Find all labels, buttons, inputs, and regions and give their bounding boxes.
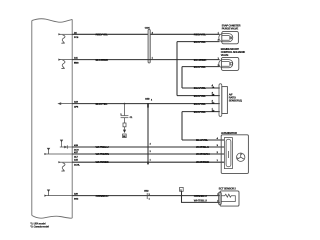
svg-text:EMS: EMS <box>74 62 79 64</box>
A/F ratio sensor label <box>229 93 242 103</box>
svg-text:BLK/YEL: BLK/YEL <box>96 102 108 106</box>
svg-text:WHT/BLU: WHT/BLU <box>196 145 209 149</box>
wire R3 BLU/RED: ECM to engine mount control solenoid valve pin 1 <box>72 59 219 61</box>
ECT sensor 2 body <box>219 191 240 206</box>
wire R4 BLK/YEL: trunk to engine mount control solenoid valve pin 2 <box>182 66 220 68</box>
svg-text:C1: C1 <box>130 117 133 119</box>
ECM pin label A19/ACG <box>74 144 79 152</box>
ECM internal ground flag (ECT sensor ground) <box>44 190 72 197</box>
wire R5 BLK/YEL: T2 trunk to A/F sensor pin 1 <box>182 87 220 89</box>
svg-text:AFS: AFS <box>74 105 79 108</box>
A/F sensor pin labels <box>212 84 215 113</box>
alternator pin labels <box>217 137 219 162</box>
wire R1 RED/YEL: ECM to EVAP canister purge valve pin 1 <box>72 33 219 35</box>
capacitor C1 branch to ground <box>120 104 133 139</box>
svg-text:WHT/GRN: WHT/GRN <box>96 152 110 156</box>
ECM pin label A20/SG2 <box>74 193 79 201</box>
node T1: trunk from purge valve pin 2 down to A/F pin 2 <box>176 42 178 96</box>
inline connector C512 tick on ECT wire <box>144 190 150 200</box>
node T2: trunk from engine mount pin 2 down to A/F pin 1 <box>181 67 183 88</box>
connector reference square above ECT wire tee <box>180 187 184 195</box>
svg-text:ORN/BLU: ORN/BLU <box>96 194 109 198</box>
node T3: trunk from A/F pin 4 down to alternator wire <box>181 112 183 140</box>
ECT sensor 2 pin labels <box>217 194 219 203</box>
engine mount control solenoid valve label <box>221 47 245 57</box>
svg-text:*2: Canada model: *2: Canada model <box>30 226 49 229</box>
svg-text:C152: C152 <box>145 98 150 100</box>
svg-text:BLU/RED: BLU/RED <box>194 58 207 62</box>
svg-text:ECT SENSOR 2: ECT SENSOR 2 <box>219 187 237 191</box>
wire R10 WHT/BLU: ECM to alternator <box>72 146 224 148</box>
svg-text:ALT: ALT <box>74 156 79 159</box>
svg-text:BLU/RED: BLU/RED <box>96 58 109 62</box>
alternator body <box>221 135 248 174</box>
svg-text:ACGL: ACGL <box>74 163 81 166</box>
A/F sensor connector capsule <box>219 84 222 117</box>
svg-text:C512: C512 <box>144 190 149 192</box>
svg-text:WHT/BLU: WHT/BLU <box>96 145 109 149</box>
svg-text:WHT/GRN: WHT/GRN <box>196 152 210 156</box>
svg-text:2: 2 <box>150 151 151 153</box>
svg-text:4: 4 <box>151 99 153 102</box>
svg-text:SENSOR (1): SENSOR (1) <box>229 98 242 102</box>
wire R11 WHT/GRN: ECM to alternator <box>72 153 224 155</box>
EVAP canister purge valve body <box>219 31 239 43</box>
wire R13 ORN/BLU: ECM to ECT sensor 2 pin 1 <box>72 195 219 197</box>
ECM pin label A23/AFS <box>74 101 79 109</box>
wire R7 BLK/YEL: ECM to A/F sensor pin 3 <box>72 103 220 105</box>
svg-text:BLU/YEL: BLU/YEL <box>196 138 208 142</box>
wire R12 WHT/RED: ECM to alternator <box>72 161 224 163</box>
ECM internal squiggle (alternator L line) <box>58 161 72 171</box>
svg-text:WHT/BLU: WHT/BLU <box>194 199 207 203</box>
ECM internal driver squiggle (purge valve output) <box>58 33 72 43</box>
svg-text:RED/YEL: RED/YEL <box>194 33 206 37</box>
svg-text:ORN/BLU: ORN/BLU <box>194 194 207 198</box>
svg-text:2: 2 <box>149 194 150 196</box>
ECM pin label A17/ALT <box>74 151 79 159</box>
svg-text:G2: G2 <box>123 136 125 138</box>
ECM/PCM module box (torn edges) <box>32 19 72 219</box>
ECT sensor 2 thermistor element <box>221 194 235 201</box>
wire R9 BLU/YEL: T3 trunk to alternator pin 4 <box>182 139 224 141</box>
A/F sensor connector body <box>222 87 228 114</box>
svg-text:PURGE VALVE: PURGE VALVE <box>222 26 239 30</box>
svg-text:4: 4 <box>150 143 152 146</box>
svg-text:1: 1 <box>217 160 219 162</box>
wire R14 WHT/BLU: tee down to ECT sensor 2 pin 2 <box>182 196 220 203</box>
alternator generator symbol <box>237 153 245 161</box>
wire D1: vertical drop from A/F pin 3 wire joining alternator L wire <box>148 104 152 165</box>
svg-text:A15: A15 <box>74 159 79 162</box>
svg-text:WHT/RED: WHT/RED <box>196 160 210 164</box>
ECM internal arrow (A/F heater line continues) <box>57 102 72 105</box>
svg-text:ALTERNATOR: ALTERNATOR <box>221 131 237 135</box>
svg-text:BLK/YEL: BLK/YEL <box>194 110 206 114</box>
ECM pin label A15/ACGL <box>74 159 81 167</box>
ECM internal ground flag and diode (alternator C wire) <box>60 140 72 149</box>
svg-text:BLK/YEL: BLK/YEL <box>194 40 206 44</box>
engine mount control solenoid valve body <box>219 57 239 70</box>
svg-text:C101: C101 <box>145 28 151 30</box>
wire R8 BLK/YEL: trunk to A/F sensor pin 4 <box>182 111 220 113</box>
ECM internal driver squiggle (engine mount output) <box>58 59 72 69</box>
ECM internal ground flag (alternator wire 2) <box>44 148 72 155</box>
svg-text:PCS: PCS <box>74 37 79 39</box>
node: junction stub to vertical drop <box>147 103 149 108</box>
wire R6 BLK/YEL: T1 trunk to A/F sensor pin 2 <box>177 95 220 97</box>
svg-text:VALVE: VALVE <box>221 53 229 57</box>
svg-text:SG2: SG2 <box>74 198 79 200</box>
svg-text:RED/YEL: RED/YEL <box>96 33 108 37</box>
svg-text:BLK/YEL: BLK/YEL <box>194 86 206 90</box>
ECM pin label A11/EMS <box>74 57 79 65</box>
svg-text:1: 1 <box>149 198 150 200</box>
svg-text:BLK/YEL: BLK/YEL <box>194 94 206 98</box>
svg-text:BLK/YEL: BLK/YEL <box>194 102 206 106</box>
wire R2 BLK/YEL: trunk to EVAP purge valve pin 2 <box>177 41 220 43</box>
node: junction dot to noise capacitor <box>124 103 126 105</box>
svg-text:BLK/YEL: BLK/YEL <box>194 65 206 69</box>
svg-text:1: 1 <box>150 160 151 162</box>
junction connector C101 bar <box>145 28 154 63</box>
ECM pin label A6/PCS <box>74 31 79 39</box>
EVAP canister purge valve label <box>222 23 241 30</box>
node: tee junction on ECT wire <box>181 195 183 197</box>
svg-text:WHT/RED: WHT/RED <box>96 160 110 164</box>
